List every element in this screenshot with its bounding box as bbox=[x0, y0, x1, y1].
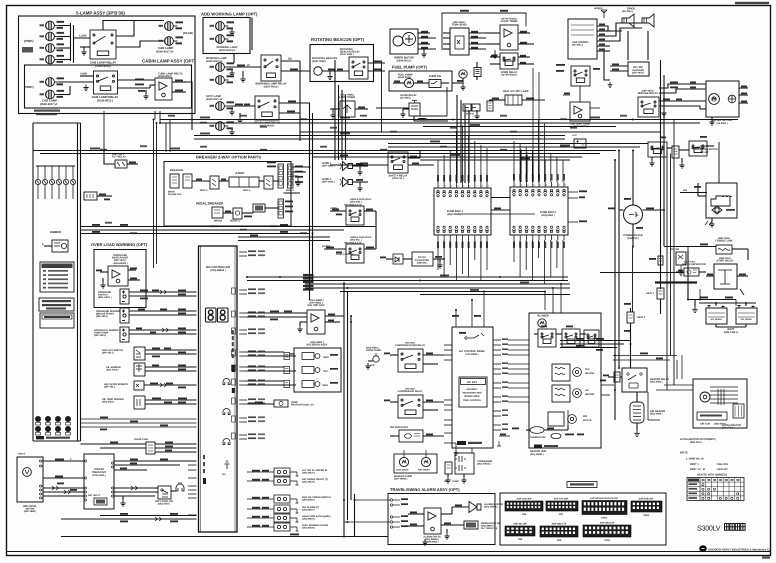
svg-text:(25Q-45893 ): (25Q-45893 ) bbox=[530, 453, 544, 456]
water temp sender bbox=[134, 396, 145, 409]
front wiper motor box bbox=[390, 29, 418, 54]
ac panel right pins bbox=[493, 339, 501, 341]
svg-text:AIR HEATER: AIR HEATER bbox=[650, 410, 665, 413]
wire travel alarm feeds bbox=[355, 499, 391, 501]
svg-text:FUSIBLE LINK: FUSIBLE LINK bbox=[715, 240, 732, 243]
svg-text:(25M-7451 ): (25M-7451 ) bbox=[719, 257, 732, 260]
controller inner vertical text marks bbox=[232, 330, 234, 334]
svg-text:HEAT A/T+DPT LAMP: HEAT A/T+DPT LAMP bbox=[503, 90, 529, 93]
pressure sender brake bbox=[120, 308, 129, 323]
svg-text:(25Q-4520 ): (25Q-4520 ) bbox=[102, 401, 115, 404]
ground beacon bbox=[327, 74, 332, 80]
svg-text:(2540-9021 )A: (2540-9021 )A bbox=[206, 98, 222, 101]
svg-text:(25Q-45B ): (25Q-45B ) bbox=[350, 201, 362, 204]
ground lamps W bbox=[229, 29, 234, 35]
lamp L4 bbox=[46, 55, 59, 64]
wire bus y284 bbox=[305, 283, 570, 285]
relay with opamp top bbox=[500, 25, 518, 50]
wire lamps to relay2 bbox=[59, 81, 94, 83]
wire dimmer bbox=[44, 245, 52, 247]
controller right pins upper bbox=[239, 251, 247, 253]
wire pump switch drop bbox=[446, 87, 448, 116]
svg-text:PEDAL BREAKER: PEDAL BREAKER bbox=[196, 202, 224, 206]
svg-text:PEDAL b: PEDAL b bbox=[230, 220, 240, 223]
wire right vertical group bbox=[632, 247, 634, 313]
svg-text:12V 100AH: 12V 100AH bbox=[710, 318, 722, 321]
wire alternator bbox=[632, 151, 634, 206]
svg-text:eMw.T: eMw.T bbox=[18, 453, 26, 456]
wire vbus x309 bbox=[309, 103, 311, 300]
key relay right bbox=[571, 66, 590, 86]
wiper motor symbol bbox=[23, 468, 32, 477]
travel alarm enclosure bbox=[388, 494, 495, 545]
wiper control switch bbox=[158, 486, 171, 499]
OVER LOAD WARNING enclosure bbox=[94, 250, 146, 308]
wire water sep bbox=[676, 271, 684, 273]
wire ctrl to solenoids bbox=[247, 351, 284, 353]
wire angle relay 2 bbox=[324, 248, 346, 250]
extra short stub labels scatter bbox=[168, 115, 175, 117]
relay top right 1 bbox=[648, 142, 667, 157]
wire vbus group x335 bbox=[334, 60, 336, 160]
svg-text:CN6: CN6 bbox=[522, 513, 527, 516]
CABIN LAMP ASSY enclosure bbox=[25, 65, 192, 108]
wire rear wiper drop to bus bbox=[711, 117, 713, 123]
svg-text:WASHER PUMP: WASHER PUMP bbox=[394, 475, 412, 478]
lamp L1 bbox=[46, 21, 59, 30]
wire alt relay bbox=[104, 151, 115, 165]
wire wiper motor pins bbox=[418, 32, 430, 34]
fuse row F1-F6 bbox=[35, 166, 40, 199]
wire stereo drop bbox=[604, 51, 610, 80]
svg-text:12V 100AH: 12V 100AH bbox=[740, 318, 752, 321]
svg-text:(T04-45893 ): (T04-45893 ) bbox=[465, 353, 479, 356]
temp send box bbox=[450, 28, 469, 55]
wire left col buttons to ctrl bbox=[81, 418, 197, 420]
washer motor 2 bbox=[421, 457, 430, 466]
timer pins bbox=[84, 460, 86, 462]
lamp timer box bbox=[340, 101, 355, 117]
svg-text:(2547-9023 ): (2547-9023 ) bbox=[264, 86, 279, 89]
wire relay1 to right lamps bbox=[116, 21, 164, 37]
wire bus h11 bbox=[388, 156, 582, 158]
svg-text:(25Q-4561 ): (25Q-4561 ) bbox=[541, 214, 555, 217]
ground ctrl bottom bbox=[224, 460, 229, 469]
svg-text:CN8: CN8 bbox=[518, 538, 523, 541]
fuel pump motor bbox=[404, 78, 413, 87]
sheet corner mark bottom right bbox=[762, 557, 770, 559]
svg-text:HEATER RELAY: HEATER RELAY bbox=[650, 378, 669, 381]
water separator bbox=[684, 268, 699, 276]
resistor top right bbox=[672, 146, 679, 158]
lamp W3 bbox=[216, 63, 229, 72]
wire safety relay left leads bbox=[313, 156, 389, 158]
working lamp relay 1 bbox=[261, 55, 281, 81]
svg-text:(25P-45B2 ): (25P-45B2 ) bbox=[309, 301, 322, 304]
ground rear wiper bbox=[709, 119, 714, 125]
switch label bar bbox=[36, 436, 44, 439]
switch buttons row1 bbox=[35, 416, 41, 422]
svg-text:ROTATING BEACON (OPT): ROTATING BEACON (OPT) bbox=[311, 37, 365, 42]
cab temp timer bbox=[570, 102, 590, 121]
relay left of fusebox bbox=[388, 152, 408, 173]
timer unit bottom box bbox=[94, 498, 107, 505]
ground timer bbox=[120, 500, 125, 506]
wiper box pins bbox=[39, 460, 41, 462]
wtr t fuse capsule bbox=[658, 256, 663, 265]
2way box bbox=[229, 177, 259, 187]
connector CN7 block bbox=[546, 501, 578, 511]
svg-text:CN9: CN9 bbox=[557, 539, 562, 542]
wire ctrl bottom long bbox=[247, 536, 388, 538]
svg-text:ASP AB 10P: ASP AB 10P bbox=[513, 523, 527, 526]
wire vbus x455 group bbox=[456, 95, 458, 183]
fusebox2 right labels bbox=[568, 191, 578, 193]
wire water temp bbox=[145, 399, 197, 401]
wire drop into breaker box bbox=[165, 123, 167, 152]
svg-text:(25M-748E )J: (25M-748E )J bbox=[724, 331, 739, 334]
wire key relay links bbox=[579, 86, 581, 102]
ground relay2 bbox=[83, 85, 88, 91]
cab lamp relay 1 bbox=[90, 30, 116, 59]
svg-text:CN7: CN7 bbox=[559, 513, 564, 516]
svg-text:1.25W: 1.25W bbox=[79, 35, 87, 38]
wire rear box right pins bbox=[739, 87, 748, 89]
air filter switch bbox=[134, 381, 144, 390]
svg-text:COND: COND bbox=[452, 480, 459, 483]
svg-text:ANGLE SUS HOLD: ANGLE SUS HOLD bbox=[350, 236, 372, 239]
svg-text:(25Q-45B3C ): (25Q-45B3C ) bbox=[477, 463, 492, 466]
turn lamp unit box bbox=[155, 78, 172, 100]
svg-text:CABIN LAMP ASSY (OPT): CABIN LAMP ASSY (OPT) bbox=[142, 59, 196, 64]
svg-text:(2549-9031 ): (2549-9031 ) bbox=[397, 60, 412, 63]
connector strip 3 bbox=[278, 199, 284, 218]
wire knob bbox=[368, 360, 373, 362]
start relay box bbox=[714, 264, 737, 289]
heater relay box bbox=[622, 368, 647, 392]
svg-text:P/W WIPER MTR: P/W WIPER MTR bbox=[390, 426, 408, 429]
svg-text:WHC c: WHC c bbox=[243, 189, 251, 192]
breaker unit 1 bbox=[170, 174, 179, 188]
heated box hatch ticks bbox=[718, 389, 724, 405]
label key relay bbox=[556, 64, 565, 66]
speaker SP2 bbox=[642, 14, 654, 27]
heat signal fuse 1 bbox=[657, 288, 664, 299]
svg-text:ant(p)a: ant(p)a bbox=[594, 7, 603, 10]
svg-text:AIR FILTER SENSOR: AIR FILTER SENSOR bbox=[104, 383, 128, 386]
ground top relays bbox=[649, 160, 654, 166]
svg-text:A/C: A/C bbox=[585, 389, 589, 392]
2way unit left connector bbox=[210, 176, 219, 189]
RF RR noise filter box bbox=[628, 62, 649, 76]
svg-text:(25M-7459 ): (25M-7459 ) bbox=[718, 237, 731, 240]
wire fuse top bus bbox=[36, 165, 75, 167]
lamp R1 bbox=[165, 22, 178, 31]
wire relay2 left bbox=[80, 75, 94, 77]
ground glow plug bbox=[634, 430, 640, 437]
compressor relay 1 bbox=[398, 349, 423, 372]
svg-text:+(2T04-40342 ): +(2T04-40342 ) bbox=[501, 17, 518, 20]
logo daewoo bbox=[699, 545, 707, 552]
svg-text:(25Q-4519 ): (25Q-4519 ) bbox=[106, 369, 119, 372]
lamp R2 bbox=[165, 37, 178, 46]
fan motor 2 bbox=[573, 389, 582, 398]
heated box connector bbox=[733, 404, 744, 418]
wire vbus right x660 bbox=[660, 60, 662, 289]
svg-text:HEATER: HEATER bbox=[585, 372, 595, 375]
wire turn unit out bbox=[172, 81, 186, 83]
working lamp relay 2 bbox=[255, 96, 279, 120]
wire strips out bbox=[293, 166, 310, 168]
FUEL PUMP enclosure bbox=[389, 71, 452, 91]
wire thick bar near start relay bbox=[655, 281, 697, 283]
ADD WORKING LAMP enclosure bbox=[203, 18, 250, 54]
travel alarm relay bbox=[424, 508, 441, 534]
connector CN9 block bbox=[540, 526, 578, 537]
lamp L2 bbox=[46, 32, 59, 41]
solenoid 1 bbox=[302, 353, 320, 360]
svg-text:A/C CONTROL PANEL: A/C CONTROL PANEL bbox=[459, 350, 486, 353]
fan motor 1 bbox=[573, 368, 582, 377]
wire rf box bbox=[610, 65, 628, 67]
svg-text:BREAKER: BREAKER bbox=[170, 169, 183, 172]
battery 2 bbox=[736, 306, 757, 325]
svg-text:(P60K): (P60K) bbox=[24, 39, 34, 43]
wire air filter bbox=[144, 384, 197, 386]
wire washer pumps bbox=[403, 450, 405, 457]
warning plate bbox=[40, 313, 74, 328]
wire y536 long bbox=[61, 536, 388, 538]
wire beacon wiring bbox=[322, 70, 349, 72]
svg-text:+(T04-45B20 ): +(T04-45B20 ) bbox=[308, 299, 323, 302]
svg-text:HORN 2: HORN 2 bbox=[322, 178, 332, 181]
connector diagram enclosure bbox=[500, 493, 666, 545]
lamp W4 bbox=[216, 76, 229, 85]
ground turn unit bbox=[143, 93, 148, 99]
resistor unit 2 bbox=[552, 385, 570, 402]
battery 1 bbox=[706, 306, 727, 325]
svg-text:(25P-9035 ): (25P-9035 ) bbox=[453, 21, 466, 24]
rod lift switch bbox=[134, 347, 145, 360]
wire angle relay 1 bbox=[330, 210, 346, 212]
alarm buzzer speaker bbox=[469, 502, 481, 513]
breaker unit 1b bbox=[183, 174, 192, 188]
svg-text:PUMP: PUMP bbox=[291, 401, 298, 404]
solenoid 2 bbox=[302, 367, 320, 374]
svg-text:CONVERTER: CONVERTER bbox=[415, 259, 430, 262]
wire compressor relays bbox=[423, 354, 444, 356]
wire bus extra y294 bbox=[420, 294, 570, 296]
svg-text:(2540-9020 )A: (2540-9020 )A bbox=[206, 60, 222, 63]
wire relay outputs bbox=[281, 60, 300, 62]
connector CN12 block bbox=[582, 501, 627, 515]
wire speakers to stereo bbox=[597, 26, 622, 31]
svg-text:A/C: A/C bbox=[444, 480, 448, 483]
wire heated box feeds bbox=[664, 384, 693, 386]
svg-text:WLDME THK: WLDME THK bbox=[168, 193, 182, 196]
aircon relay 1 bbox=[538, 329, 556, 347]
heated box right bbox=[693, 379, 747, 428]
svg-text:+2-C: +2-C bbox=[572, 134, 577, 137]
svg-text:(25H-731 ): (25H-731 ) bbox=[392, 177, 404, 180]
svg-text:FUEL SENDER GAUGE: FUEL SENDER GAUGE bbox=[302, 524, 329, 527]
svg-text:M/S: M/S bbox=[178, 482, 183, 485]
wire temp send pins bbox=[443, 32, 450, 34]
relay top right 2 bbox=[689, 141, 707, 156]
svg-text:M/F M/T: M/F M/T bbox=[700, 151, 709, 154]
capacitor component bbox=[487, 101, 493, 111]
svg-text:TIMER UNIT: TIMER UNIT bbox=[92, 471, 107, 474]
wire timer out right2 bbox=[114, 469, 147, 471]
svg-text:(25Q-45B3 ): (25Q-45B3 ) bbox=[310, 341, 323, 344]
horn 1 bbox=[340, 162, 353, 171]
svg-text:5-LAMP ASSY (3P'B'36): 5-LAMP ASSY (3P'B'36) bbox=[76, 11, 125, 16]
wire right verticals to batteries bbox=[699, 289, 701, 300]
wire rear wiper feeds bbox=[659, 84, 706, 88]
heated box motor bbox=[700, 392, 710, 402]
svg-text:(P60K): (P60K) bbox=[24, 85, 34, 89]
start motor symbol bbox=[712, 206, 722, 214]
water sedimenter bbox=[409, 103, 420, 116]
wire rod lift bbox=[145, 349, 197, 351]
wire overload senders out bbox=[129, 291, 197, 293]
washer small relay box bbox=[399, 430, 423, 442]
wire washer relay bbox=[423, 435, 444, 437]
ground mirdef bbox=[661, 110, 666, 116]
wire timer out right bbox=[114, 460, 197, 462]
svg-text:DC-DC: DC-DC bbox=[418, 256, 426, 259]
ground wiper bbox=[421, 51, 426, 57]
connector strip 2 bbox=[288, 164, 294, 188]
svg-text:WHC b: WHC b bbox=[200, 189, 208, 192]
svg-text:HEATED WITH HARNESS: HEATED WITH HARNESS bbox=[697, 474, 727, 477]
pump proportional valve bbox=[274, 400, 288, 407]
wire start motor bbox=[698, 195, 706, 197]
wire bus h1 bbox=[160, 119, 738, 121]
svg-text:(25P-4516 ): (25P-4516 ) bbox=[94, 334, 106, 337]
knob panel circle bbox=[373, 356, 379, 362]
wire thermostat bbox=[526, 429, 530, 431]
fuse box 2 bbox=[510, 187, 568, 235]
svg-text:LAMP TIMER: LAMP TIMER bbox=[339, 96, 355, 99]
2way right connector bbox=[264, 176, 273, 189]
svg-text:(25-4952 ): (25-4952 ) bbox=[716, 122, 727, 125]
svg-text:ALARM FRCTS: ALARM FRCTS bbox=[423, 536, 441, 539]
svg-text:HORN: HORN bbox=[330, 207, 337, 210]
wire start motor feed vertical bbox=[718, 142, 720, 183]
svg-text:MICROSWITCHES: MICROSWITCHES bbox=[463, 392, 482, 395]
wire pedal links bbox=[223, 212, 233, 214]
svg-text:ROD LIFT SWITCH: ROD LIFT SWITCH bbox=[102, 349, 123, 352]
svg-text:TEMP PUMP: TEMP PUMP bbox=[94, 332, 109, 335]
wire bus h10 bbox=[40, 153, 600, 155]
svg-text:MIR DEF RELAY: MIR DEF RELAY bbox=[638, 92, 658, 95]
wire mid bus extra bbox=[238, 236, 330, 238]
cond small part bbox=[445, 462, 452, 474]
lamp C2 bbox=[46, 90, 59, 99]
svg-text:eMute PWR In/Out (pMic): eMute PWR In/Out (pMic) bbox=[302, 515, 331, 518]
rear wiper box bbox=[706, 81, 739, 117]
wire alarm to buzzer bbox=[441, 513, 452, 515]
angle relay 1 bbox=[346, 206, 364, 225]
svg-text:(25Q-45525 ): (25Q-45525 ) bbox=[302, 527, 315, 530]
svg-text:WTR B: WTR B bbox=[466, 113, 474, 116]
ac panel left pins bbox=[444, 344, 452, 346]
wire resistor bbox=[476, 62, 478, 68]
svg-text:(2T04-4590 ): (2T04-4590 ) bbox=[92, 474, 106, 477]
beacon relay bbox=[349, 57, 368, 79]
svg-text:(25Q-45B9 ): (25Q-45B9 ) bbox=[366, 346, 379, 349]
svg-text:(25Q-45507 ): (25Q-45507 ) bbox=[302, 509, 315, 512]
svg-text:: AEH-127: : AEH-127 bbox=[716, 468, 728, 471]
left column label above bbox=[34, 110, 60, 112]
wire timer bottom outs bbox=[114, 487, 155, 489]
wire overload unit bbox=[128, 269, 136, 271]
ground glow timer bbox=[492, 52, 497, 58]
washer motor 1 bbox=[399, 457, 408, 466]
wire vertical working lamp bus bbox=[233, 54, 235, 63]
svg-text:DAEWOO HEAVY INDUSTRIES & Mach: DAEWOO HEAVY INDUSTRIES & Machinery Co. bbox=[708, 548, 772, 552]
wire vbus right x615 bbox=[614, 160, 616, 420]
wire ac top feeds bbox=[455, 310, 457, 327]
lamp L3 bbox=[46, 44, 59, 53]
wire horns bbox=[353, 165, 369, 167]
svg-text:SWITCH: SWITCH bbox=[98, 294, 108, 297]
fusible link bbox=[716, 245, 732, 254]
ground water sed bbox=[400, 111, 405, 117]
wire ac to aircon box bbox=[508, 339, 529, 341]
aircon relay 2 bbox=[562, 329, 580, 347]
wire relay1 left pins bbox=[74, 37, 91, 39]
svg-text:(25B-4910 ): (25B-4910 ) bbox=[690, 441, 702, 444]
left column outer edge bbox=[32, 123, 34, 441]
svg-text:(SCAB): (SCAB) bbox=[183, 31, 193, 35]
sol spd gov unit bbox=[307, 310, 325, 334]
svg-text:(2540-9017 )A: (2540-9017 )A bbox=[40, 103, 57, 106]
svg-text:(25-4942 ): (25-4942 ) bbox=[622, 10, 633, 13]
svg-text:2-WAY: 2-WAY bbox=[235, 171, 244, 175]
headphone jack symbols bbox=[223, 379, 230, 385]
svg-text:(25B-458 ): (25B-458 ) bbox=[417, 262, 428, 265]
small relay right of fusebox2 bbox=[574, 139, 586, 148]
wire bus y280 bbox=[247, 280, 568, 282]
svg-text:AIR MIXC: AIR MIXC bbox=[467, 388, 478, 391]
wire right horizontal y272 bbox=[600, 272, 684, 274]
diode unit bbox=[393, 254, 403, 264]
svg-text:OIL TEMP SENDER: OIL TEMP SENDER bbox=[102, 398, 124, 401]
svg-text:ENG OIL PRESS SWITCH: ENG OIL PRESS SWITCH bbox=[302, 496, 331, 499]
svg-text:BRAND SPED: BRAND SPED bbox=[464, 395, 480, 398]
svg-text:(SOLENOID) MOTOR: (SOLENOID) MOTOR bbox=[694, 148, 718, 151]
wire lamp bus vertical bbox=[70, 23, 72, 61]
wire right area y355 bus bbox=[613, 355, 677, 357]
wire beacon relay out bbox=[368, 62, 385, 64]
svg-text:+(254-63402 ): +(254-63402 ) bbox=[112, 262, 127, 265]
wire glow timer pins bbox=[486, 32, 500, 34]
svg-text:(25P-4515 ): (25P-4515 ) bbox=[96, 315, 108, 318]
IPG controller inner edge marks bbox=[200, 246, 202, 532]
svg-text:(25Q-45B56 ): (25Q-45B56 ) bbox=[484, 506, 498, 509]
BREAKER 2-WAY enclosure bbox=[164, 162, 291, 227]
sheet number top right bbox=[735, 2, 769, 4]
left column bottom bbox=[33, 440, 81, 442]
svg-text:ALT SIG IN / WIPER IN: ALT SIG IN / WIPER IN bbox=[302, 469, 327, 472]
mirror defroster relay bbox=[638, 97, 659, 117]
svg-text:(25P-4943 ): (25P-4943 ) bbox=[632, 72, 644, 75]
wire relay2 to turn unit bbox=[118, 79, 156, 81]
wire wiper to timer top bbox=[43, 460, 84, 462]
alternator circle bbox=[624, 205, 643, 224]
